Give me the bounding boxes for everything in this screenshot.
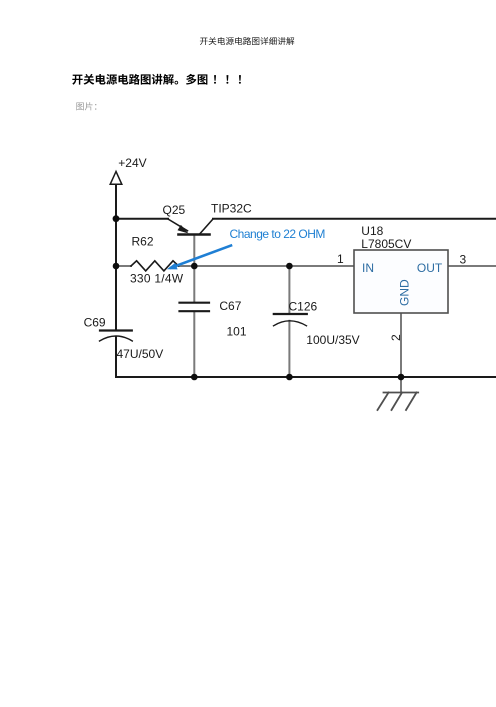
svg-text:OUT: OUT [417,261,443,275]
svg-text:101: 101 [227,325,247,339]
svg-text:C69: C69 [84,316,106,330]
svg-text:330 1/4W: 330 1/4W [130,272,184,286]
svg-text:GND: GND [398,279,412,306]
svg-text:+24V: +24V [118,156,146,170]
svg-text:TIP32C: TIP32C [211,202,252,216]
svg-text:C67: C67 [219,299,241,313]
svg-text:Q25: Q25 [163,203,186,217]
svg-text:2: 2 [389,334,403,341]
svg-text:U18: U18 [361,224,383,238]
svg-text:100U/35V: 100U/35V [306,333,359,347]
svg-text:C126: C126 [289,300,318,314]
svg-text:47U/50V: 47U/50V [117,347,164,361]
svg-text:L7805CV: L7805CV [361,237,411,251]
svg-text:R62: R62 [132,235,154,249]
svg-text:3: 3 [460,253,467,267]
svg-text:IN: IN [362,261,374,275]
svg-text:1: 1 [337,252,344,266]
svg-text:Change to 22 OHM: Change to 22 OHM [230,227,326,241]
